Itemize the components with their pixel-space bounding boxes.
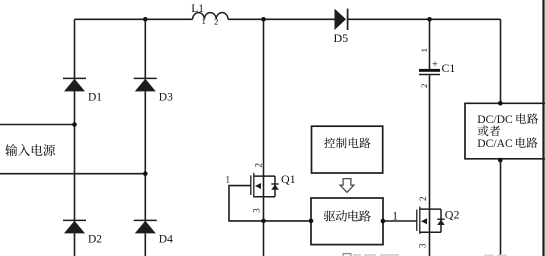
DC/DC or DC/AC circuit box: [465, 103, 545, 159]
node top Q1: [261, 17, 266, 22]
node Q1 source / drive: [261, 219, 266, 224]
wire top right corner down to DC/DC box: [500, 19, 502, 103]
svg-text:1: 1: [419, 48, 429, 52]
svg-text:Q2: Q2: [445, 207, 460, 221]
node drive box left: [309, 219, 314, 224]
transistor Q1: [251, 173, 275, 198]
inductor L1: [193, 13, 228, 20]
node drive box right: [381, 219, 386, 224]
svg-text:2: 2: [214, 17, 218, 27]
svg-text:1: 1: [202, 16, 206, 26]
input power label 输入电源: [5, 144, 17, 156]
node input2: [143, 171, 148, 176]
svg-text:2: 2: [418, 197, 428, 202]
svg-text:DC/AC: DC/AC: [477, 137, 513, 150]
svg-text:DC/DC: DC/DC: [477, 113, 513, 126]
diode D3: [134, 78, 173, 103]
capacitor C1: [419, 48, 455, 88]
drive circuit box 驱动电路: [311, 198, 383, 245]
cut-off text marks at bottom edge: [353, 254, 507, 256]
wire Q1 gate loop to drive box: [229, 186, 311, 221]
wire input line 1: [0, 124, 75, 126]
svg-text:Q1: Q1: [281, 172, 296, 186]
node DC/DC in: [498, 101, 503, 106]
svg-text:3: 3: [418, 243, 428, 248]
svg-text:2: 2: [254, 163, 264, 168]
control circuit box 控制电路: [312, 126, 383, 173]
svg-text:D1: D1: [88, 92, 102, 104]
svg-text:D3: D3: [159, 92, 173, 104]
wire second bridge column (D3/D4): [144, 19, 146, 256]
svg-text:D4: D4: [159, 234, 173, 246]
diode D1: [63, 78, 102, 103]
node DC/DC out: [498, 158, 503, 163]
svg-text:1: 1: [226, 175, 231, 185]
svg-text:3: 3: [252, 208, 262, 213]
svg-text:D2: D2: [88, 234, 102, 246]
node top C1: [427, 17, 432, 22]
diode D5: [334, 9, 349, 45]
wire left bridge column (D1/D2): [74, 19, 76, 256]
wire top rail middle segment: [228, 18, 335, 20]
diode D2: [63, 220, 102, 245]
wire input line 2: [0, 173, 145, 175]
hollow down arrow: [340, 179, 354, 193]
wire top rail right segment: [348, 18, 501, 20]
wire drive box output to Q2 gate: [383, 220, 417, 222]
wire DC/DC box output down: [500, 159, 502, 256]
wire Q1 drain/source column: [263, 19, 265, 256]
wire top rail left segment: [75, 18, 193, 20]
wire C1 bottom lead to Q2 and below: [429, 75, 431, 256]
wire right edge vertical: [542, 0, 544, 256]
diode D4: [134, 220, 173, 245]
node input1: [72, 122, 77, 127]
transistor Q2: [417, 207, 441, 234]
svg-text:C1: C1: [442, 61, 456, 75]
cut-off arrow top at bottom edge: [343, 254, 351, 256]
wire C1 top lead: [429, 19, 431, 69]
node top D3: [143, 17, 148, 22]
svg-text:D5: D5: [334, 31, 349, 45]
svg-text:1: 1: [392, 210, 398, 222]
inductor L1 label: [191, 3, 218, 27]
svg-text:2: 2: [419, 84, 429, 88]
svg-text:+: +: [432, 60, 438, 71]
svg-text:L1: L1: [191, 3, 204, 15]
